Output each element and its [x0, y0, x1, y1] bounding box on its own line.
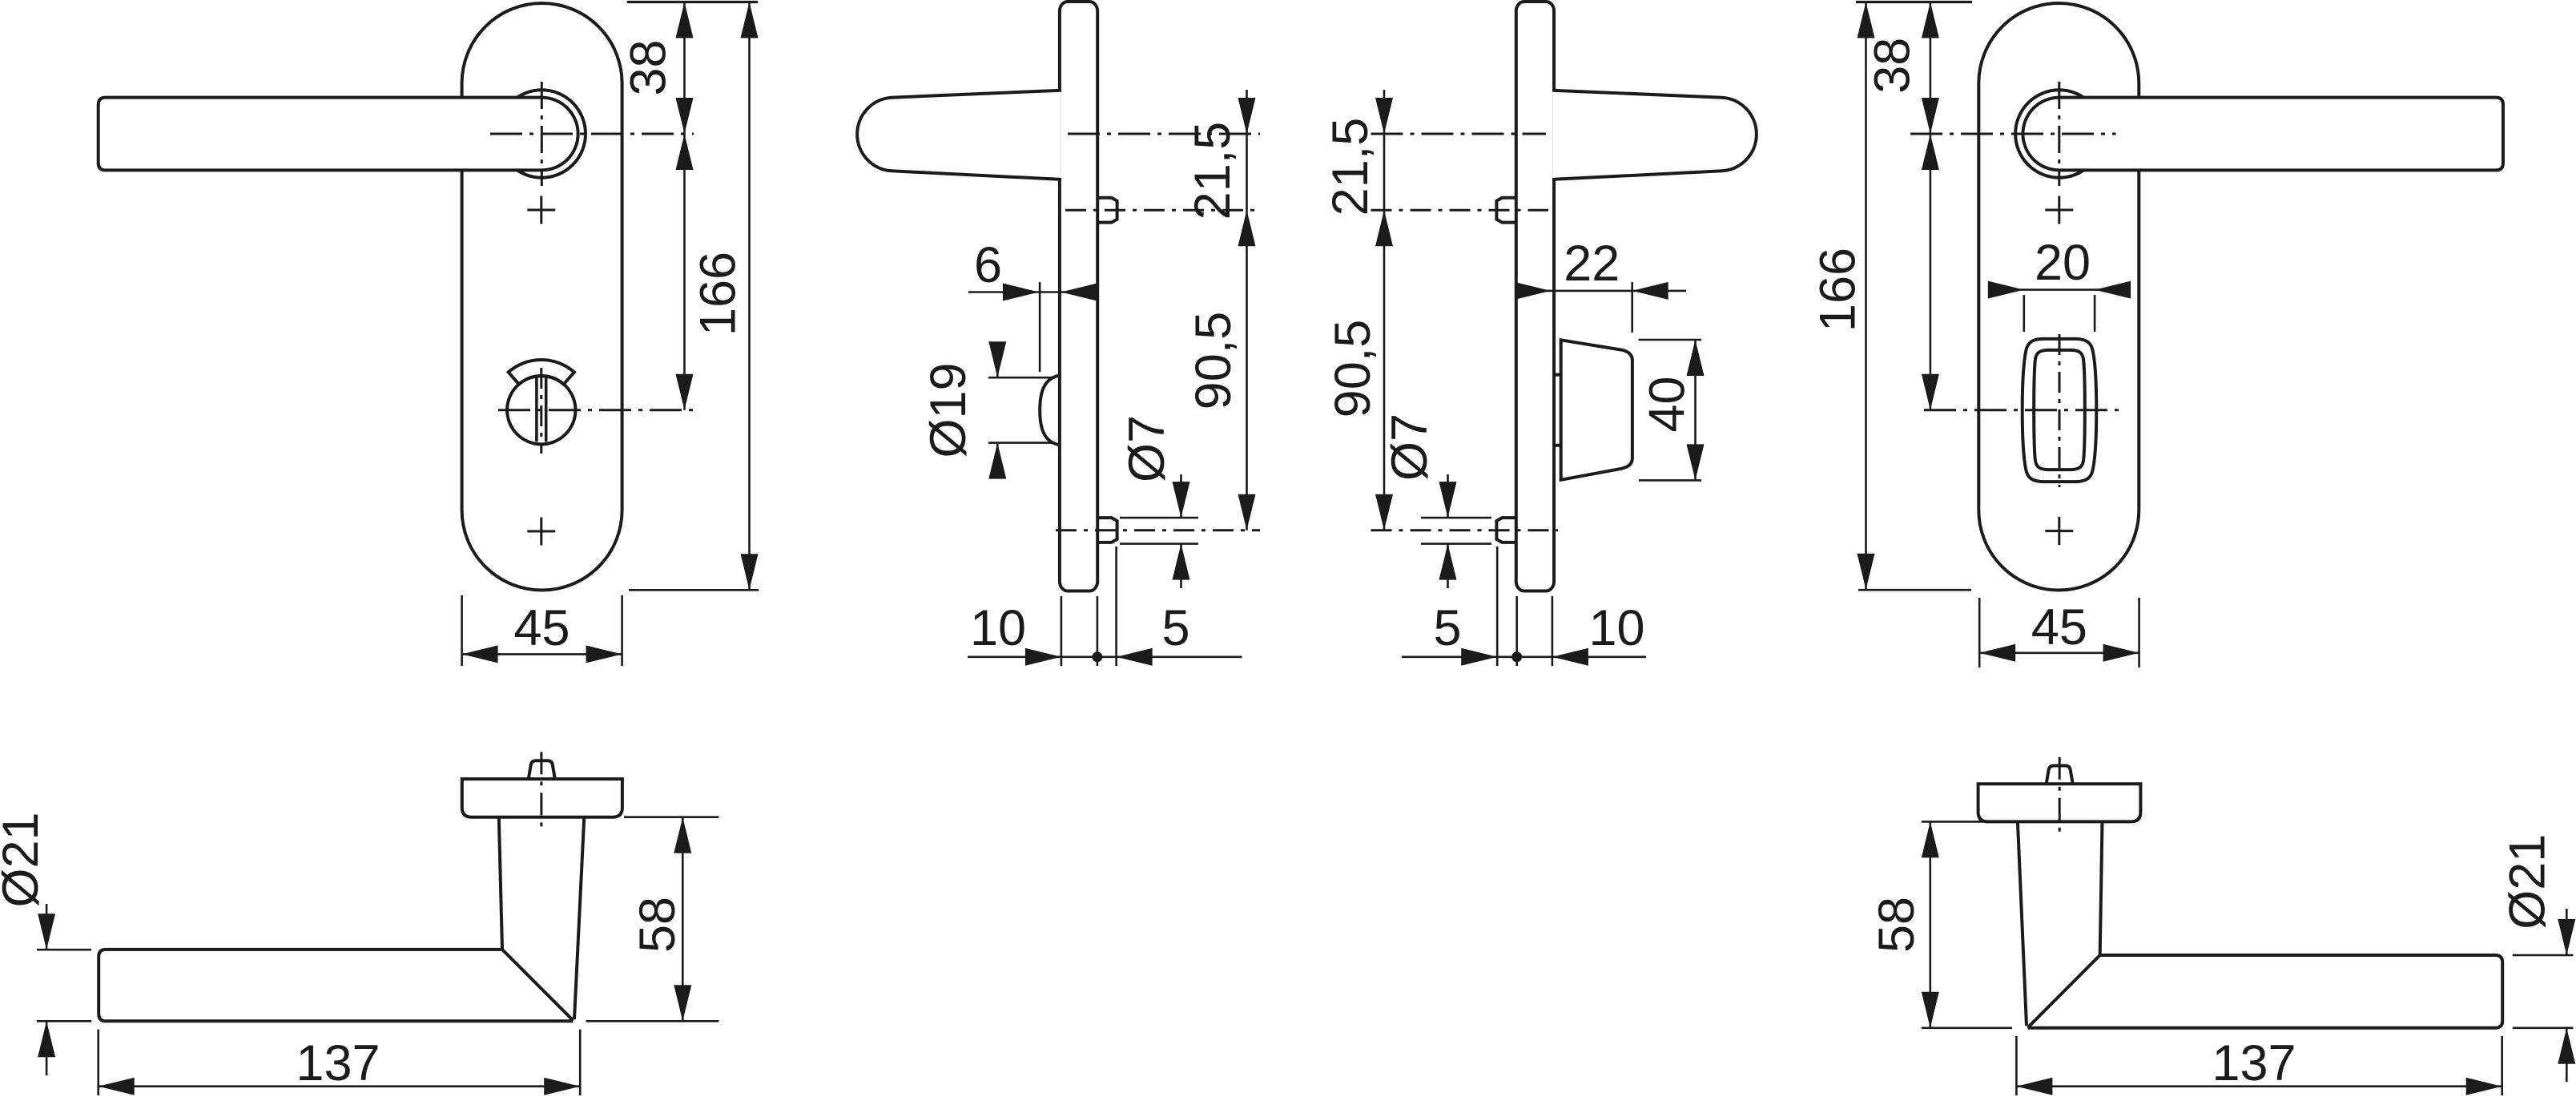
extension line plate front (view 3) — [1515, 596, 1518, 666]
upper screw centerline (view 2) — [1065, 209, 1260, 212]
axis centerline (view 2) — [1068, 133, 1260, 135]
right extension line 137 (view 5) — [579, 1030, 582, 1095]
svg-text:38: 38 — [621, 39, 677, 95]
arrow right to screw end (view 3) — [1461, 648, 1497, 666]
bottom extension line of 166 (view 4) — [1858, 589, 1971, 591]
dimension line dia21 upper tail (view 5) — [46, 904, 48, 950]
svg-text:Ø21: Ø21 — [2500, 834, 2556, 930]
svg-text:5: 5 — [1433, 600, 1461, 656]
svg-text:21,5: 21,5 — [1185, 122, 1241, 220]
lower fixing screw back-nut (view 2) — [1098, 518, 1117, 542]
upper extension line 40 (view 3) — [1639, 339, 1701, 341]
arrow down at axis on 38 line (view 1) — [676, 98, 694, 134]
arrow right to plate front (view 2) — [1025, 648, 1061, 666]
lower extension line 40 (view 3) — [1639, 479, 1701, 482]
lower screw centerline (view 2) — [1056, 529, 1260, 531]
arrow left to slot right (view 4) — [2095, 281, 2131, 299]
dimension line dia7 lower tail (view 2) — [1180, 544, 1182, 588]
arrow down to dia7 top (view 3) — [1439, 482, 1457, 518]
axis centerline (view 3) — [1371, 133, 1547, 135]
junction dot on plate front line (view 3) — [1511, 651, 1522, 662]
arrow up at top of 166 line (view 4) — [1858, 2, 1875, 38]
grip bar top view (view 5) — [99, 950, 573, 1021]
upper screw hole cross mark (view 4) — [2045, 196, 2073, 224]
dimension line 40 (view 3) — [1694, 340, 1697, 480]
vertical centerline through pivot (view 1) — [541, 82, 543, 186]
dimension line 21.5 (view 2) — [1246, 90, 1248, 210]
neck left edge (view 6) — [2018, 821, 2027, 1026]
arrow left to plate back (view 3) — [1552, 648, 1588, 666]
left extension line 20 (view 4) — [2023, 295, 2026, 332]
spindle centerline (view 6) — [2059, 757, 2061, 835]
arrow left to knob face (view 3) — [1632, 282, 1668, 300]
svg-text:38: 38 — [1865, 38, 1921, 94]
svg-text:5: 5 — [1161, 600, 1189, 656]
arrow up at upper screw line (view 3) — [1375, 210, 1393, 246]
WC release slot inner contour (view 4) — [2034, 350, 2085, 470]
lower extension line 58 (view 5) — [586, 1020, 719, 1022]
svg-text:90,5: 90,5 — [1325, 320, 1381, 418]
arrow up below axis (view 1) — [676, 134, 694, 170]
lever grip seen from side (view 3) — [1552, 91, 1757, 179]
dimension line 166 (view 4) — [1865, 2, 1867, 590]
dimension line 45 (view 4) — [1979, 651, 2139, 654]
indicator sector above knob (view 1) — [509, 360, 574, 385]
view 5: top view of lever handle (bottom left) — [0, 752, 718, 1095]
view 1: front view of lever handle on short plate (lever pointing left) — [99, 2, 759, 667]
svg-text:45: 45 — [2031, 599, 2087, 655]
arrow right to hub face (view 2) — [1003, 284, 1039, 301]
arrow up to bar bottom (view 6) — [2558, 1028, 2575, 1064]
thumbturn hub bulge on plate front (view 2) — [1040, 376, 1060, 446]
vertical centerline through knob (view 1) — [540, 368, 542, 454]
plate (view 1, rounded short plate 45x166) — [462, 3, 622, 591]
arrow up to 40 top (view 3) — [1687, 340, 1705, 376]
arrow up at plate top on 38 line (view 1) — [676, 2, 694, 38]
extension line plate back (view 3) — [1552, 596, 1554, 666]
lower tick dia21 (view 6) — [2513, 1027, 2574, 1030]
neck right edge (view 5) — [574, 817, 584, 1019]
upper extension line dia19 (view 2) — [988, 377, 1055, 379]
lower tick dia21 (view 5) — [37, 1020, 91, 1022]
arrow up to bar bottom (view 5) — [38, 1021, 55, 1057]
arrow right of 137 dim (view 5) — [544, 1078, 580, 1095]
svg-text:Ø7: Ø7 — [1119, 415, 1175, 482]
extension line knob face (view 3) — [1631, 282, 1633, 333]
arrow left of 137 dim (view 5) — [99, 1078, 135, 1095]
arrow right to slot left (view 4) — [1988, 281, 2024, 299]
arrow down at knob line (view 1) — [676, 374, 694, 410]
svg-text:58: 58 — [1869, 897, 1925, 953]
dimension line axis-to-knob (view 1) — [683, 134, 686, 410]
left extension line 137 (view 5) — [97, 1030, 99, 1095]
dimension line 58 (view 6) — [1930, 821, 1932, 1027]
top extension line (view 1) — [627, 1, 758, 3]
left extension line 45 (view 4) — [1978, 598, 1981, 667]
upper tick dia21 (view 5) — [37, 949, 91, 951]
lever grip seen from side (view 2) — [857, 91, 1061, 179]
dimension line 45 (view 1) — [462, 653, 622, 655]
upper extension line dia7 (view 2) — [1120, 517, 1198, 519]
svg-text:40: 40 — [1640, 377, 1696, 433]
WC release slot outer contour (view 4) — [2023, 339, 2097, 482]
dimension line 137 (view 5) — [99, 1085, 581, 1087]
bearing circle of lever pivot (view 4) — [2015, 90, 2103, 177]
right extension line 20 (view 4) — [2094, 295, 2096, 332]
arrow down at bottom of 166 line (view 4) — [1858, 554, 1875, 590]
svg-text:6: 6 — [974, 237, 1002, 293]
knob slot right edge (view 1) — [545, 378, 548, 442]
dimension line 5 and 10 (view 3) — [1402, 655, 1646, 658]
dimension line 137 (view 6) — [2016, 1085, 2502, 1087]
left extension line 45 (view 1) — [461, 595, 463, 666]
neck right edge (view 6) — [2100, 821, 2103, 954]
svg-text:22: 22 — [1564, 236, 1620, 292]
upper screw centerline (view 3) — [1371, 209, 1549, 212]
upper extension line dia7 (view 3) — [1421, 517, 1491, 519]
svg-text:45: 45 — [513, 600, 570, 656]
plate (view 4) — [1978, 3, 2139, 591]
dimension line dia7 lower tail (view 3) — [1447, 544, 1449, 588]
dimension line 90.5 (view 3) — [1383, 210, 1386, 530]
neck left edge (view 5) — [499, 817, 502, 950]
extension line plate front (view 2) — [1061, 596, 1063, 666]
lower extension line dia7 (view 2) — [1120, 542, 1198, 545]
lever grip bar (view 4) — [2023, 98, 2503, 171]
WC turn knob circle (view 1) — [507, 376, 575, 444]
bearing circle of lever pivot (view 1) — [498, 90, 586, 177]
upper tick dia21 (view 6) — [2513, 954, 2574, 957]
horizontal centerline through slot (view 4) — [1924, 409, 2121, 411]
svg-text:Ø7: Ø7 — [1382, 413, 1438, 481]
arrow up to rosette base (view 6) — [1922, 821, 1939, 857]
arrow down to dia19 top (view 2) — [988, 341, 1006, 377]
horizontal centerline through knob (view 1) — [498, 409, 695, 411]
lower screw hole cross mark (view 4) — [2045, 517, 2073, 545]
dimension line dia21 upper tail (view 6) — [2566, 909, 2568, 955]
top extension line (view 4) — [1856, 1, 1972, 3]
dimension line axis-to-slot (view 4) — [1930, 134, 1932, 410]
arrow down to bar top (view 5) — [38, 913, 55, 950]
lower extension line dia7 (view 3) — [1421, 542, 1491, 545]
dimension line 166 (view 1) — [748, 2, 751, 591]
lever grip bar (view 1) — [99, 98, 578, 171]
arrow left of 45 dim (view 4) — [1979, 644, 2015, 662]
upper fixing screw back-nut (view 2) — [1098, 198, 1117, 223]
view 3: side profile view mirrored (thumbturn knob at right) — [1322, 2, 1757, 666]
svg-text:137: 137 — [2212, 1035, 2296, 1091]
dimension line 10 and 5 (view 2) — [968, 655, 1242, 658]
plate top edge / rosette (view 6) — [1978, 784, 2141, 821]
svg-text:10: 10 — [1588, 600, 1644, 656]
dimension line dia21 lower tail (view 5) — [46, 1021, 48, 1075]
dimension line dia19 lower tail (view 2) — [996, 443, 999, 478]
arrow up to dia7 bottom (view 2) — [1173, 544, 1190, 580]
arrow right of 137 dim (view 6) — [2466, 1078, 2502, 1095]
dimension line 90.5 (view 2) — [1246, 210, 1248, 530]
arrow up to dia7 bottom (view 3) — [1439, 544, 1457, 580]
left extension line 137 (view 6) — [2015, 1036, 2018, 1095]
lower screw centerline (view 3) — [1371, 529, 1559, 531]
svg-text:21,5: 21,5 — [1322, 118, 1379, 216]
grip bar top view (view 6) — [2028, 955, 2503, 1028]
spindle screw tip (view 5) — [529, 760, 555, 779]
arrow left of 45 dim (view 1) — [462, 645, 498, 663]
arrow left to plate face (view 2) — [1061, 284, 1097, 301]
upper screw hole cross mark (view 1) — [527, 196, 555, 224]
lower extension line 58 (view 6) — [1922, 1027, 2012, 1030]
extension line for dim 6 (view 2) — [1039, 282, 1041, 372]
arrow up to rosette base (view 5) — [674, 817, 691, 853]
svg-text:90,5: 90,5 — [1185, 312, 1242, 410]
right extension line 45 (view 4) — [2138, 598, 2140, 667]
upper extension line 58 (view 6) — [1922, 821, 2008, 823]
extension line screw end (view 2) — [1115, 546, 1117, 666]
arrow down at axis on 38 line (view 4) — [1922, 98, 1939, 134]
dimension line 21.5 (view 3) — [1383, 90, 1386, 210]
svg-text:20: 20 — [2035, 235, 2091, 291]
view 6: top view of lever handle mirrored (bottom right) — [1869, 757, 2575, 1095]
arrow down to axis from above (view 3) — [1375, 98, 1393, 134]
arrow down to axis from above (view 2) — [1238, 98, 1256, 134]
dimension line dia21 lower tail (view 6) — [2566, 1028, 2568, 1082]
svg-text:Ø21: Ø21 — [0, 812, 49, 907]
view 4: front view mirrored with WC emergency release slot — [1810, 2, 2504, 668]
arrow down at bottom of 166 line (view 1) — [741, 554, 759, 590]
arrow left to screw end line (view 2) — [1117, 648, 1153, 666]
dimension line dia19 upper tail (view 2) — [996, 343, 999, 377]
dimension line 20 (view 4) — [1989, 288, 2131, 291]
right extension line 137 (view 6) — [2501, 1036, 2503, 1095]
svg-text:10: 10 — [970, 600, 1026, 656]
svg-text:137: 137 — [296, 1035, 380, 1091]
arrow up at top of 166 line (view 1) — [741, 2, 759, 38]
extension line screw end (view 3) — [1496, 546, 1499, 666]
svg-text:166: 166 — [1810, 248, 1866, 332]
bottom extension line of 166 (view 1) — [629, 589, 759, 591]
arrow down to 40 bottom (view 3) — [1687, 444, 1705, 480]
lower extension line dia19 (view 2) — [988, 442, 1055, 444]
arrow right of 45 dim (view 4) — [2103, 644, 2139, 662]
spindle screw tip (view 6) — [2047, 766, 2073, 784]
thumbturn hub neck lower line (view 3) — [1554, 444, 1561, 447]
arrow down to bar bottom (view 5) — [674, 985, 691, 1021]
dimension line 6 (view 2) — [968, 291, 1096, 293]
svg-text:166: 166 — [690, 252, 747, 336]
arrow down to bar bottom (view 6) — [1922, 992, 1939, 1028]
horizontal axis centerline (view 4) — [1910, 133, 2116, 135]
svg-text:58: 58 — [630, 897, 686, 953]
thumbturn wing knob (view 3) — [1561, 340, 1632, 480]
dimension line 38 (view 1) — [683, 2, 686, 135]
arrow up at upper screw line (view 2) — [1238, 210, 1256, 246]
right extension line 45 (view 1) — [621, 595, 623, 666]
plate top edge / rosette (view 5) — [462, 779, 622, 817]
lower fixing screw back-nut (view 3) — [1496, 518, 1515, 542]
arrow up at plate top on 38 line (view 4) — [1922, 2, 1939, 38]
dimension line dia7 upper tail (view 3) — [1447, 474, 1449, 518]
arrow down at lower screw line (view 3) — [1375, 494, 1393, 530]
arrow up to dia19 bottom (view 2) — [988, 443, 1006, 479]
knob slot left edge (view 1) — [535, 378, 538, 442]
dimension line 22 (view 3) — [1516, 290, 1686, 292]
vertical centerline through slot (view 4) — [2059, 334, 2061, 487]
dimension line 38 (view 4) — [1930, 2, 1932, 135]
junction dot on plate back line (view 2) — [1092, 651, 1102, 662]
plate profile (view 2) — [1060, 2, 1097, 591]
svg-text:Ø19: Ø19 — [920, 362, 976, 458]
arrow up below axis (view 4) — [1922, 134, 1939, 170]
horizontal axis centerline (view 1) — [490, 133, 694, 135]
plate profile (view 3) — [1516, 2, 1554, 591]
extension line plate back (view 2) — [1097, 596, 1099, 666]
arrow down at lower screw line (view 2) — [1238, 494, 1256, 530]
arrow down at slot line (view 4) — [1922, 374, 1939, 410]
dimension line 58 (view 5) — [682, 817, 684, 1022]
upper fixing screw back-nut (view 3) — [1496, 198, 1515, 223]
upper extension line 58 (view 5) — [624, 816, 718, 818]
arrow right of 45 dim (view 1) — [586, 645, 622, 663]
arrow left of 137 dim (view 6) — [2016, 1078, 2052, 1095]
thumbturn hub neck upper line (view 3) — [1554, 373, 1561, 377]
lower screw hole cross mark (view 1) — [527, 518, 555, 546]
inner corner diagonal (view 5) — [502, 950, 574, 1021]
arrow down to bar top (view 6) — [2558, 919, 2575, 955]
inner corner diagonal (view 6) — [2028, 955, 2100, 1027]
spindle centerline (view 5) — [540, 752, 542, 830]
arrow right to plate back (view 3) — [1515, 282, 1551, 300]
dimension line dia7 upper tail (view 2) — [1180, 474, 1182, 518]
view 2: side profile view (lever to the left) — [857, 2, 1260, 666]
arrow down to dia7 top (view 2) — [1173, 482, 1190, 518]
vertical centerline through pivot (view 4) — [2058, 82, 2060, 186]
